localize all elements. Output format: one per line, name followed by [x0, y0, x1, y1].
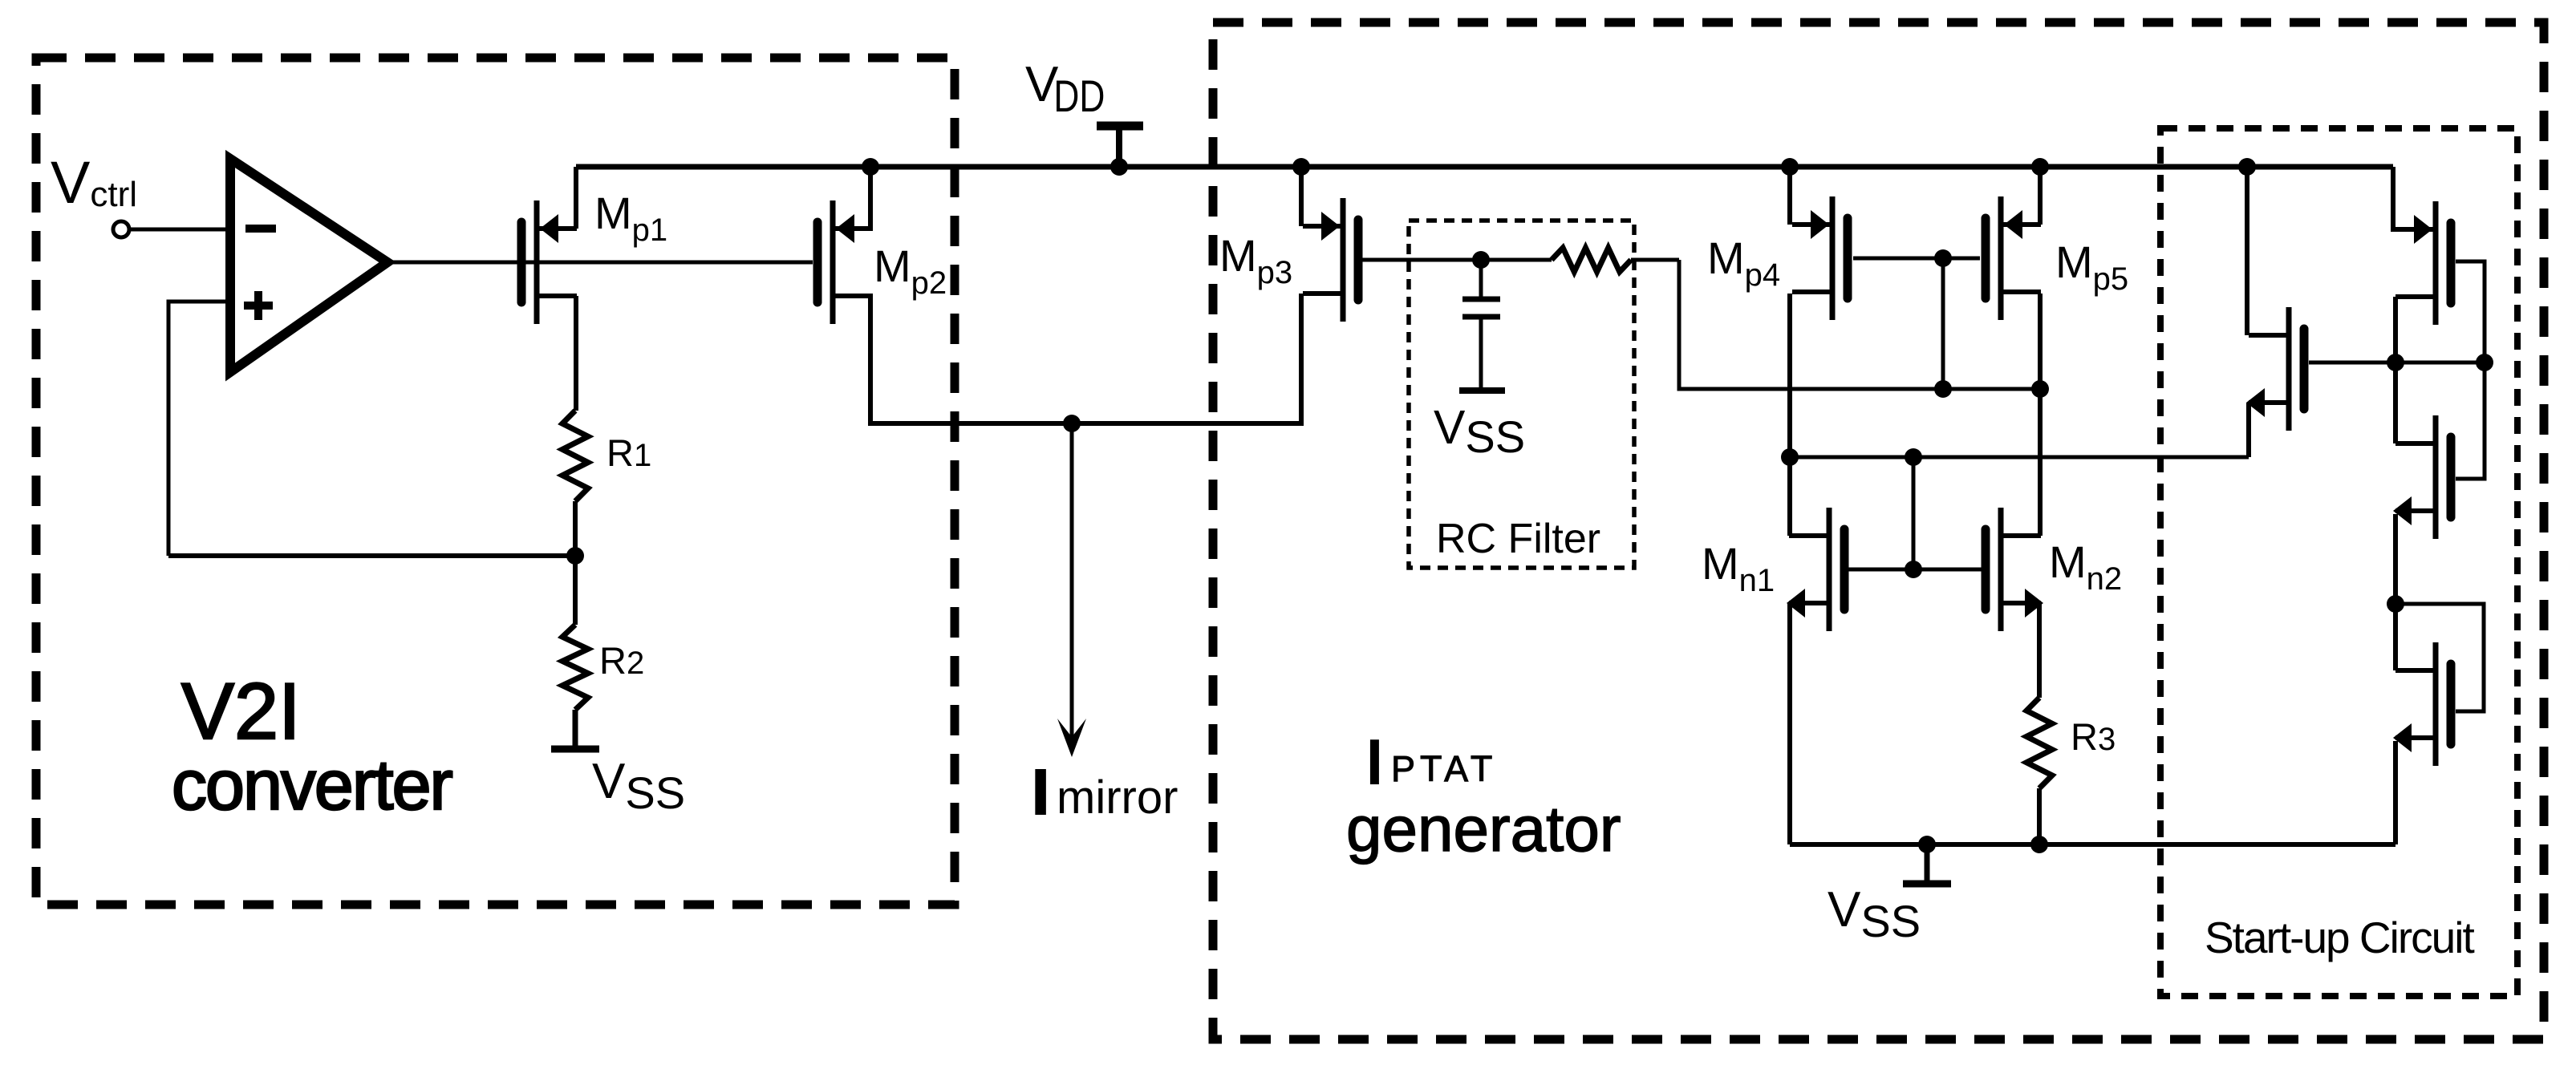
label Mn2 [2049, 537, 2122, 597]
svg-text:converter: converter [172, 745, 452, 824]
transistor Mp4 [1792, 196, 1848, 320]
label Start-up Circuit [2205, 913, 2474, 962]
ground VSS under C1 [1459, 387, 1505, 394]
wire Mn2 source to R3 [2037, 603, 2042, 698]
svg-text:Start-up Circuit: Start-up Circuit [2205, 913, 2474, 962]
svg-text:I: I [1366, 728, 1383, 796]
wire op-amp + input [168, 302, 230, 556]
node VSS rail junction 1 [1918, 836, 1936, 853]
wire RC output [1679, 260, 2040, 389]
wire Mp2 source riser [868, 167, 873, 229]
power VDD symbol [1097, 126, 1143, 167]
wire VSS rail [1790, 842, 2395, 847]
svg-text:V2I: V2I [181, 666, 301, 755]
label Mp1 [594, 188, 667, 248]
label VSS RC [1434, 401, 1525, 462]
wire Mp2 drain riser [868, 296, 873, 426]
transistor Ms3 [2393, 415, 2451, 539]
node VDD junction [1110, 158, 1128, 176]
wire Ms2 gate loop [2456, 261, 2485, 362]
wire Mp3 gate to RC [1361, 258, 1481, 262]
wire Mp5 source riser [2038, 167, 2043, 225]
wire Ms1 source [2246, 403, 2251, 457]
label RC Filter [1436, 516, 1600, 562]
svg-text:R1: R1 [606, 431, 651, 474]
label Mp5 [2055, 237, 2128, 297]
wire Mp4-Mp5 gates [1853, 257, 1980, 261]
wire Vctrl input [129, 228, 230, 232]
node gate junction Mn [1905, 561, 1922, 578]
ground VSS under R2 [551, 710, 599, 749]
wire Mp4 source riser [1787, 167, 1792, 225]
svg-text:I: I [1032, 756, 1049, 828]
label Mn1 [1702, 538, 1775, 598]
resistor R3 [2026, 698, 2052, 788]
wire R3 to rail [2037, 788, 2042, 844]
transistor Mp1 [521, 200, 577, 324]
wire Ms2 drain [2393, 297, 2398, 362]
node Ms3 source junction [2387, 595, 2404, 613]
wire mirror bus [870, 421, 1301, 426]
node RC input junction [1472, 251, 1490, 269]
wire Mp3 drain riser [1299, 294, 1304, 426]
transistor Mn2 [1986, 508, 2043, 631]
label R1 [606, 431, 651, 474]
label VDD [1025, 57, 1105, 121]
label IPTAT [1366, 728, 1497, 796]
wire gate riser Mp4 Mp5 [1941, 258, 1945, 389]
wire Ms3 drain [2393, 362, 2398, 443]
node startup wire junction [1905, 448, 1922, 466]
svg-text:R3: R3 [2071, 715, 2116, 758]
wire to start-up [1790, 456, 2249, 460]
label Mp3 [1219, 230, 1292, 290]
wire Ms1 drain riser [2245, 167, 2249, 335]
box RC Filter [1409, 221, 1634, 568]
node RC-gate junction [1934, 380, 1952, 398]
wire feedback [168, 553, 575, 558]
label Mp4 [1707, 233, 1780, 293]
wire R1 to node [573, 501, 578, 559]
resistor RC [1481, 248, 1679, 272]
label R3 [2071, 715, 2116, 758]
node gate junction top [1934, 249, 1952, 267]
transistor Ms4 [2393, 642, 2451, 766]
wire Ms3 gate loop [2456, 362, 2485, 479]
wire Imirror arrow [1057, 423, 1086, 757]
label converter [172, 745, 452, 824]
label VSS V2I [592, 754, 685, 818]
node feedback junction [566, 547, 584, 565]
transistor Ms2 [2395, 201, 2451, 325]
box IPTAT generator [1213, 22, 2544, 1039]
wire VDD rail [576, 164, 2393, 170]
wire Mp1 drain to R1 [574, 296, 578, 411]
wire Mn1 source [1787, 603, 1792, 844]
wire Ms4 source [2393, 741, 2398, 844]
node Mp4 rail junction [1781, 158, 1799, 176]
svg-text:generator: generator [1346, 793, 1621, 865]
node Mp5 drain junction [2031, 380, 2049, 398]
transistor Mp3 [1303, 198, 1358, 322]
node Imirror junction [1063, 415, 1081, 432]
transistor Ms1 [2246, 307, 2304, 431]
terminal Vctrl [113, 221, 129, 237]
wire Ms3 source [2393, 514, 2398, 604]
capacitor C1 [1462, 260, 1500, 387]
node Mp3 rail junction [1292, 158, 1310, 176]
wire Mp3 source riser [1299, 167, 1304, 226]
transistor Mn1 [1787, 508, 1844, 631]
wire Mn1-Mn2 gates [1844, 568, 1986, 572]
svg-text:R2: R2 [599, 639, 644, 682]
box Start-up Circuit [2160, 128, 2517, 996]
label V2I [181, 666, 301, 755]
transistor Mp2 [817, 200, 873, 324]
svg-text:RC Filter: RC Filter [1436, 516, 1600, 562]
resistor R1 [562, 411, 588, 501]
label Mp2 [874, 241, 947, 301]
label VSS PTAT [1828, 882, 1921, 946]
wire Ms4 drain [2393, 604, 2398, 670]
wire Mp5 drain to Mn2 [2038, 294, 2043, 536]
node Ms gate junction 1 [2387, 354, 2404, 371]
wire op-amp output [387, 261, 813, 265]
resistor R2 [562, 556, 588, 710]
transistor Mp5 [1986, 196, 2041, 320]
wire gate riser Mn [1912, 457, 1916, 569]
svg-text:mirror: mirror [1057, 771, 1178, 824]
box V2I converter [36, 58, 955, 905]
node Mp2 rail junction [862, 158, 879, 176]
op-amp U1 [230, 159, 387, 372]
node Ms gate junction 2 [2476, 354, 2493, 371]
label Vctrl [51, 149, 137, 216]
wire Mp4 drain to Mn1 [1787, 294, 1792, 536]
node startup feed junction [1781, 448, 1799, 466]
svg-text:PTAT: PTAT [1391, 748, 1497, 789]
node startup rail junction [2238, 158, 2256, 176]
label Imirror [1032, 756, 1178, 828]
wire Mp1 source riser [574, 167, 578, 229]
node Mp5 rail junction [2031, 158, 2049, 176]
label R2 [599, 639, 644, 682]
ground VSS PTAT [1903, 844, 1951, 884]
label generator [1346, 793, 1621, 865]
wire Ms1 gate [2309, 361, 2485, 365]
wire rail to Ms2 [2393, 167, 2433, 229]
wire Ms4 gate loop [2395, 604, 2484, 711]
node VSS rail junction 2 [2030, 836, 2048, 853]
